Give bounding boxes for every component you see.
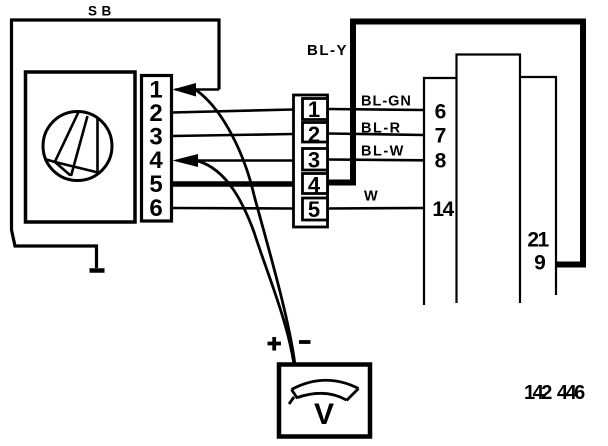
- svg-text:1: 1: [308, 97, 320, 122]
- probe arrow at pin 4: [173, 154, 199, 167]
- svg-text:14: 14: [432, 198, 454, 221]
- svg-text:BL-Y: BL-Y: [307, 42, 348, 59]
- svg-text:5: 5: [149, 171, 162, 198]
- ground: [90, 268, 105, 273]
- control unit connector column left: [424, 78, 457, 305]
- voltmeter V box: [279, 365, 370, 437]
- wire pin3 to cell2: [172, 134, 293, 136]
- wire pin5 to cell4 thick BL-Y: [172, 181, 294, 187]
- svg-text:4: 4: [149, 147, 163, 174]
- svg-text:21: 21: [527, 229, 549, 252]
- cell 1: [303, 99, 328, 120]
- wire pin2 to cell1: [172, 110, 293, 113]
- svg-text:142 446: 142 446: [524, 382, 585, 404]
- probe arrow at pin 1: [173, 83, 197, 97]
- blower motor M box: [26, 72, 136, 222]
- wire BL-Y thick from cell4 up over to pin9: [328, 22, 584, 265]
- svg-text:2: 2: [308, 122, 320, 147]
- cell 4: [303, 174, 328, 194]
- cell 5: [303, 198, 328, 220]
- wire W cell5 to pin14: [328, 207, 425, 210]
- connector middle outer box: [294, 95, 328, 227]
- wire pin1 to SB: [175, 88, 219, 91]
- svg-text:6: 6: [435, 101, 447, 124]
- svg-text:6: 6: [149, 195, 162, 222]
- svg-text:V: V: [314, 398, 334, 431]
- connector left pins 1-6 box: [142, 76, 172, 222]
- svg-text:7: 7: [435, 125, 447, 148]
- svg-text:8: 8: [435, 150, 447, 173]
- svg-text:3: 3: [308, 148, 320, 173]
- cell 3: [303, 149, 328, 171]
- cell 2: [303, 123, 328, 143]
- wire pin6 to cell5: [172, 207, 293, 210]
- wire BL-GN cell1 to pin6: [328, 109, 425, 110]
- wire SB loop from pin1 over top to ground: [12, 20, 220, 268]
- svg-text:BL-GN: BL-GN: [361, 94, 412, 110]
- svg-text:4: 4: [308, 173, 321, 198]
- svg-text:BL-R: BL-R: [361, 121, 402, 137]
- blower motor fan circle: [43, 112, 112, 181]
- svg-text:5: 5: [308, 197, 320, 222]
- wire BL-W cell3 to pin8: [328, 158, 425, 161]
- label minus: [299, 340, 311, 344]
- voltmeter gauge arc: [289, 380, 359, 404]
- label plus: [268, 337, 282, 351]
- probe lead from pin4 to voltmeter minus: [198, 161, 294, 365]
- control unit connector column right: [520, 77, 556, 295]
- wire pin4 to cell3: [198, 159, 293, 162]
- svg-text:SB: SB: [88, 4, 116, 19]
- probe lead from pin1 to voltmeter plus: [196, 90, 295, 365]
- control unit center body: [457, 55, 521, 304]
- wire BL-R cell2 to pin7: [328, 134, 425, 136]
- svg-text:9: 9: [534, 252, 546, 275]
- svg-text:W: W: [364, 189, 378, 205]
- svg-text:BL-W: BL-W: [361, 144, 405, 160]
- fan blade lines: [45, 111, 99, 176]
